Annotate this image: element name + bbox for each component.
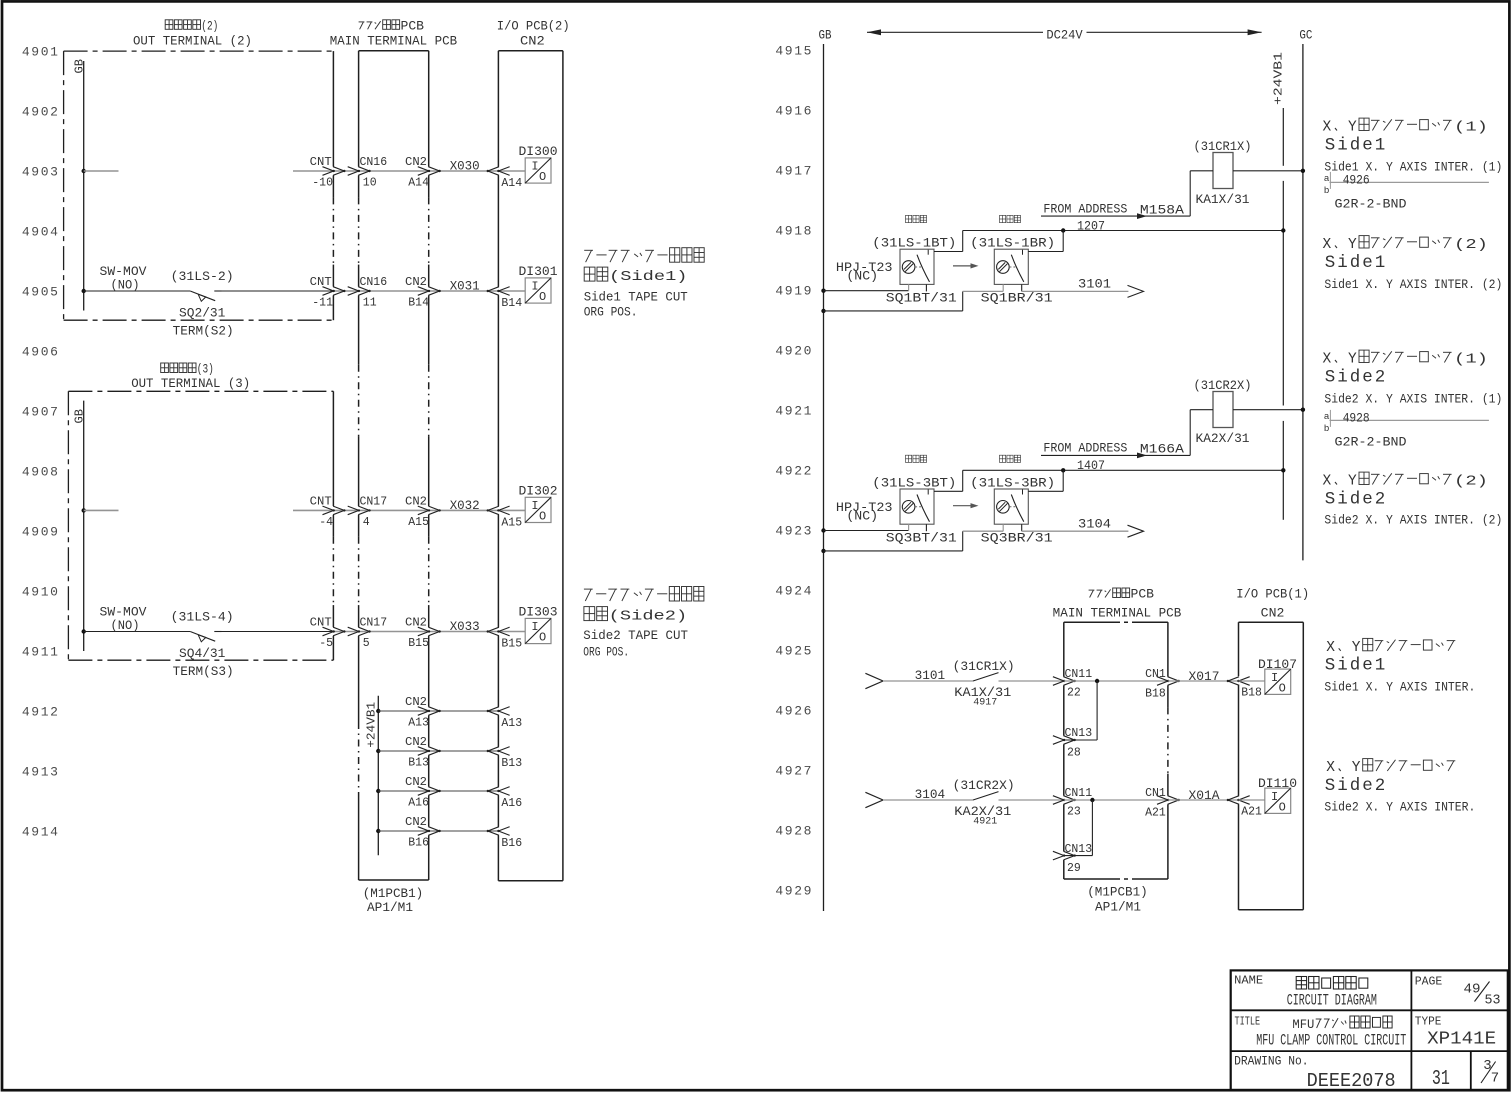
- svg-text:B13: B13: [408, 757, 429, 770]
- wire emitter top to net: [934, 490, 963, 492]
- wire to I/O module: [498, 290, 525, 292]
- wire +24V row B16: [376, 816, 522, 850]
- svg-text:GC: GC: [1299, 29, 1312, 43]
- header OUT TERMINAL (2): [133, 19, 252, 48]
- svg-text:a: a: [1324, 411, 1330, 422]
- svg-text:Y: Y: [1348, 474, 1357, 490]
- svg-text:B14: B14: [501, 297, 522, 310]
- svg-text:O: O: [539, 170, 546, 184]
- connector chevrons CNT: [323, 627, 334, 636]
- limit switch SQ2/31 row 4905 X031: [82, 265, 558, 339]
- svg-text:(31LS-2): (31LS-2): [171, 270, 234, 284]
- arrow output: [1128, 525, 1144, 537]
- svg-text:Y: Y: [1348, 352, 1357, 368]
- svg-text:(1): (1): [1454, 120, 1488, 136]
- photo sensor pair SQ3BT/SQ3BR row 4923: [821, 455, 1143, 553]
- svg-text:A16: A16: [408, 797, 429, 810]
- junction on GB: [821, 309, 825, 313]
- svg-text:10: 10: [363, 177, 377, 190]
- wire net 3101: [883, 680, 973, 682]
- svg-text:I: I: [1271, 790, 1278, 804]
- svg-text:SW-MOV: SW-MOV: [100, 265, 148, 279]
- svg-text:a: a: [1324, 173, 1330, 184]
- svg-text:Side2: Side2: [1325, 368, 1388, 388]
- label receiver kanji: [1000, 215, 1006, 222]
- relay contact KA2X/31 row 4927 X01A: [865, 777, 1297, 875]
- junction: [1090, 798, 1094, 802]
- svg-text:NAME: NAME: [1234, 974, 1263, 988]
- svg-text:Side1 X. Y AXIS INTER. (2): Side1 X. Y AXIS INTER. (2): [1324, 278, 1502, 292]
- header I/O PCB(2) CN2: [497, 19, 570, 48]
- svg-text:-5: -5: [319, 637, 333, 650]
- svg-text:23: 23: [1067, 806, 1081, 819]
- relay coil KA1X/31 (31CR1X): [1190, 140, 1305, 216]
- svg-text:CN2: CN2: [520, 34, 545, 48]
- svg-text:I/O PCB(1): I/O PCB(1): [1236, 588, 1309, 602]
- header MAIN TERMINAL PCB bottom: [1053, 588, 1182, 621]
- svg-text:O: O: [539, 290, 546, 304]
- svg-text:CN2: CN2: [1261, 607, 1285, 621]
- svg-text:Side2: Side2: [1325, 490, 1388, 510]
- title block NAME cell: [1234, 974, 1377, 1010]
- svg-text:CN2: CN2: [405, 816, 427, 829]
- svg-text:MFU CLAMP CONTROL CIRCUIT: MFU CLAMP CONTROL CIRCUIT: [1256, 1031, 1406, 1049]
- note interlock (1) Side1: [1323, 118, 1503, 211]
- svg-text:CN2: CN2: [405, 696, 427, 709]
- node GB (box3): [73, 401, 87, 651]
- svg-text:CN17: CN17: [360, 496, 388, 509]
- photo sensor receiver SQ1BR/31: [994, 249, 1028, 284]
- svg-text:MAIN TERMINAL PCB: MAIN TERMINAL PCB: [1053, 607, 1182, 621]
- svg-text:-10: -10: [312, 177, 333, 190]
- connector chevrons CN2: [418, 506, 429, 515]
- wire: [1064, 799, 1168, 801]
- svg-text:CNT: CNT: [310, 276, 332, 289]
- svg-text:ORG POS.: ORG POS.: [584, 306, 638, 320]
- wire lower branch: [824, 550, 963, 552]
- svg-text:CN16: CN16: [360, 156, 388, 169]
- svg-text:CN17: CN17: [360, 617, 388, 630]
- svg-text:X: X: [1323, 352, 1332, 368]
- svg-text:I/O PCB(2): I/O PCB(2): [497, 19, 570, 33]
- title block TITLE cell: [1235, 1014, 1407, 1049]
- wire row X032: [82, 484, 558, 529]
- note tape cutter Side1: [584, 248, 705, 320]
- svg-text:I: I: [531, 160, 538, 174]
- svg-text:DC24V: DC24V: [1046, 29, 1083, 43]
- connector chevrons CN16: [348, 167, 359, 176]
- svg-text:4922: 4922: [775, 464, 813, 479]
- svg-text:4903: 4903: [22, 165, 60, 180]
- svg-text:Side1: Side1: [1325, 136, 1388, 156]
- node GB right: [819, 29, 832, 912]
- svg-text:AP1/M1: AP1/M1: [1095, 901, 1141, 915]
- junction on GB: [821, 549, 825, 553]
- svg-text:(31LS-3BT): (31LS-3BT): [872, 476, 956, 490]
- junction on GB: [82, 169, 86, 173]
- junction on GB: [821, 289, 825, 293]
- left row number labels 4901-4914: [22, 45, 60, 840]
- note interlock (1) Side2: [1323, 350, 1503, 449]
- pin: [925, 524, 927, 531]
- connector chevrons CN17: [348, 627, 359, 636]
- junction on GB: [821, 528, 825, 532]
- svg-text:(31CR1X): (31CR1X): [953, 660, 1015, 674]
- wire to I/O module: [498, 631, 525, 633]
- label (M1PCB1) AP1/M1 left: [363, 887, 424, 915]
- svg-text:B14: B14: [408, 297, 429, 310]
- svg-text:CN13: CN13: [1065, 727, 1093, 740]
- arrow output: [1128, 285, 1144, 297]
- svg-text:7: 7: [1491, 1070, 1499, 1086]
- svg-text:3104: 3104: [915, 788, 946, 802]
- svg-text:4911: 4911: [22, 645, 60, 660]
- relay coil KA2X/31 (31CR2X): [1190, 379, 1305, 455]
- svg-text:(31LS-1BR): (31LS-1BR): [970, 237, 1055, 251]
- label emitter kanji: [906, 215, 912, 222]
- svg-text:4916: 4916: [775, 104, 813, 119]
- wire to I/O module: [498, 509, 525, 511]
- svg-text:CIRCUIT DIAGRAM: CIRCUIT DIAGRAM: [1287, 991, 1377, 1009]
- svg-text:4926: 4926: [1343, 174, 1370, 188]
- svg-text:SQ1BR/31: SQ1BR/31: [981, 292, 1053, 306]
- svg-text:I: I: [531, 499, 538, 513]
- svg-text:DI300: DI300: [519, 145, 558, 159]
- svg-text:A16: A16: [501, 797, 522, 810]
- svg-text:G2R-2-BND: G2R-2-BND: [1335, 198, 1407, 212]
- svg-text:SQ3BT/31: SQ3BT/31: [886, 531, 957, 545]
- svg-text:X031: X031: [450, 280, 480, 294]
- svg-text:b: b: [1324, 423, 1330, 434]
- svg-text:(Side1): (Side1): [609, 269, 688, 285]
- svg-text:28: 28: [1067, 747, 1081, 760]
- box OUT TERMINAL (3): [68, 391, 333, 660]
- svg-text:-4: -4: [319, 516, 333, 529]
- wire +24V row A16: [376, 776, 522, 810]
- note tape cutter Side2: [583, 587, 704, 660]
- svg-text:MAIN TERMINAL PCB: MAIN TERMINAL PCB: [330, 34, 458, 48]
- svg-text:GB: GB: [819, 29, 832, 43]
- svg-text:31: 31: [1432, 1068, 1450, 1091]
- svg-text:X033: X033: [450, 620, 480, 634]
- connector chevrons I/O pin: [488, 627, 499, 636]
- svg-text:4918: 4918: [775, 224, 813, 239]
- svg-text:A14: A14: [408, 177, 429, 190]
- wire: [1168, 799, 1239, 801]
- node +24VB1 right rail: [1272, 52, 1286, 520]
- svg-text:A15: A15: [408, 516, 429, 529]
- svg-text:4929: 4929: [775, 884, 813, 899]
- wire receiver top to net: [1028, 251, 1063, 253]
- svg-text:TITLE: TITLE: [1235, 1014, 1261, 1028]
- wire to I/O module: [1239, 799, 1265, 801]
- wire: [214, 290, 221, 292]
- svg-text:Side1 X. Y AXIS INTER.: Side1 X. Y AXIS INTER.: [1324, 681, 1475, 695]
- svg-text:CN11: CN11: [1065, 668, 1093, 681]
- wire receiver top to net: [1028, 490, 1063, 492]
- header OUT TERMINAL (3): [131, 363, 250, 391]
- svg-text:A21: A21: [1145, 806, 1166, 819]
- photo sensor emitter SQ1BT/31: [900, 249, 934, 284]
- svg-text:Side2: Side2: [1325, 776, 1388, 796]
- svg-text:3104: 3104: [1078, 517, 1111, 531]
- note interlock (2) Side2: [1323, 472, 1503, 527]
- svg-text:Side1 TAPE CUT: Side1 TAPE CUT: [584, 291, 688, 305]
- pin: [908, 524, 910, 530]
- wire net 3104: [883, 799, 973, 801]
- wire: [333, 170, 498, 172]
- svg-text:TERM(S3): TERM(S3): [173, 665, 234, 679]
- svg-text:11: 11: [363, 297, 377, 310]
- label DC24V arrow: [867, 29, 1262, 43]
- svg-text:GB: GB: [73, 409, 87, 423]
- svg-text:I: I: [531, 280, 538, 294]
- box MAIN TERMINAL PCB left: [359, 51, 429, 880]
- wire +24V row A13: [376, 696, 522, 730]
- relay contact KA1X/31 row 4925 X017: [865, 658, 1297, 760]
- wire: [84, 631, 191, 633]
- svg-text:(NO): (NO): [111, 619, 140, 633]
- svg-text:4917: 4917: [775, 164, 813, 179]
- svg-text:SQ4/31: SQ4/31: [179, 647, 225, 661]
- svg-text:CN11: CN11: [1065, 787, 1093, 800]
- note interlock Side2 (bottom): [1324, 759, 1475, 815]
- svg-text:4904: 4904: [22, 225, 60, 240]
- pin: [925, 284, 927, 291]
- wire lower branch: [824, 310, 963, 312]
- svg-text:O: O: [1279, 681, 1286, 695]
- svg-text:A14: A14: [501, 177, 522, 190]
- connector chevrons CN1 pin A21: [1157, 796, 1168, 805]
- svg-text:SW-MOV: SW-MOV: [100, 605, 148, 619]
- svg-text:X: X: [1323, 120, 1332, 136]
- svg-text:4925: 4925: [775, 644, 813, 659]
- svg-text:B16: B16: [501, 837, 522, 850]
- svg-text:(1): (1): [1454, 352, 1488, 368]
- svg-text:(31LS-4): (31LS-4): [171, 611, 234, 625]
- node +24VB1 left rail: [365, 696, 379, 856]
- wire: [333, 631, 498, 633]
- svg-text:X: X: [1326, 760, 1335, 776]
- svg-text:4926: 4926: [775, 704, 813, 719]
- svg-text:Y: Y: [1348, 120, 1357, 136]
- svg-text:4907: 4907: [22, 405, 60, 420]
- connector chevrons I/O pin: [488, 167, 499, 176]
- wire GB to emitter: [824, 530, 909, 532]
- svg-text:5: 5: [363, 637, 370, 650]
- title block TYPE cell: [1415, 1014, 1496, 1049]
- svg-text:(NO): (NO): [111, 279, 140, 293]
- wire FROM ADDRESS M166A: [1041, 442, 1190, 459]
- wire output: [1022, 530, 1129, 532]
- svg-text:O: O: [1279, 800, 1286, 814]
- connector chevrons CNT: [323, 287, 334, 296]
- node GC right: [1299, 29, 1312, 561]
- connector chevrons CN13 pin 28: [1053, 736, 1064, 745]
- svg-text:KA2X/31: KA2X/31: [1196, 432, 1250, 446]
- svg-text:4928: 4928: [1343, 412, 1370, 426]
- svg-text:4914: 4914: [22, 825, 60, 840]
- svg-text:4902: 4902: [22, 105, 60, 120]
- svg-text:(31CR2X): (31CR2X): [953, 779, 1015, 793]
- pin: [908, 284, 910, 290]
- svg-text:X01A: X01A: [1189, 789, 1221, 803]
- svg-text:Side1 X. Y AXIS INTER. (1): Side1 X. Y AXIS INTER. (1): [1324, 161, 1502, 175]
- svg-text:(2): (2): [1454, 474, 1488, 490]
- wire to CN13: [1096, 681, 1098, 740]
- svg-text:CNT: CNT: [310, 156, 332, 169]
- svg-text:CN2: CN2: [405, 496, 427, 509]
- title block: [1231, 970, 1508, 1090]
- junction on GB: [82, 629, 86, 633]
- connector chevrons CN11 pin 23: [1053, 796, 1064, 805]
- relay contact KA1X/31: [973, 673, 999, 681]
- wire to CN13: [1091, 800, 1093, 856]
- connector chevrons CN17: [348, 506, 359, 515]
- wire net 1407: [963, 459, 1286, 473]
- svg-text:(3): (3): [197, 363, 214, 377]
- wire to I/O module: [1239, 680, 1265, 682]
- note interlock Side1 (bottom): [1324, 638, 1475, 694]
- pin: [1002, 524, 1004, 531]
- svg-text:B15: B15: [408, 637, 429, 650]
- connector chevrons I/O pin: [488, 506, 499, 515]
- connector chevrons CN1 pin B18: [1157, 677, 1168, 686]
- svg-text:X017: X017: [1189, 670, 1220, 684]
- arrow wire entry: [865, 673, 883, 688]
- svg-text:KA1X/31: KA1X/31: [1196, 193, 1250, 207]
- svg-text:M166A: M166A: [1140, 443, 1185, 457]
- svg-text:CN2: CN2: [405, 276, 427, 289]
- svg-text:Y: Y: [1352, 640, 1361, 656]
- svg-text:Side2 X. Y AXIS INTER. (1): Side2 X. Y AXIS INTER. (1): [1324, 393, 1502, 407]
- svg-text:(31LS-1BT): (31LS-1BT): [872, 237, 956, 251]
- svg-text:(NC): (NC): [846, 509, 878, 523]
- connector chevrons CN11 pin 22: [1053, 677, 1064, 686]
- relay contact KA2X/31: [973, 792, 999, 800]
- svg-text:Y: Y: [1348, 237, 1357, 253]
- svg-text:PCB: PCB: [1131, 588, 1155, 602]
- svg-text:4909: 4909: [22, 525, 60, 540]
- limit switch SQ4/31 lever: [190, 632, 215, 642]
- svg-text:4923: 4923: [775, 524, 813, 539]
- pin: [1021, 524, 1023, 531]
- svg-text:4927: 4927: [775, 764, 813, 779]
- wire to I/O module: [498, 170, 525, 172]
- header MAIN TERMINAL PCB: [330, 19, 458, 48]
- connector chevrons I/O pin B18: [1228, 677, 1239, 686]
- svg-text:OUT TERMINAL (2): OUT TERMINAL (2): [133, 34, 252, 48]
- svg-text:CN2: CN2: [405, 736, 427, 749]
- wire +24V row B13: [376, 736, 522, 770]
- connector chevrons I/O pin A21: [1228, 796, 1239, 805]
- limit switch SQ4/31 row X033: [82, 605, 558, 679]
- svg-text:3101: 3101: [1078, 278, 1111, 292]
- svg-text:4915: 4915: [775, 44, 813, 59]
- svg-text:CN13: CN13: [1065, 843, 1093, 856]
- svg-text:DI303: DI303: [519, 605, 558, 619]
- svg-text:DEEE2078: DEEE2078: [1307, 1070, 1396, 1092]
- svg-text:I: I: [1271, 671, 1278, 685]
- svg-text:A21: A21: [1241, 806, 1262, 819]
- connector chevrons CN2: [418, 287, 429, 296]
- label receiver kanji: [1000, 455, 1006, 462]
- svg-text:X: X: [1326, 640, 1335, 656]
- svg-text:(Side2): (Side2): [609, 609, 688, 625]
- svg-text:Side2 X. Y AXIS INTER. (2): Side2 X. Y AXIS INTER. (2): [1324, 514, 1502, 528]
- svg-text:53: 53: [1485, 994, 1501, 1009]
- title block DRAWING cell: [1234, 1054, 1499, 1092]
- svg-text:X: X: [1323, 237, 1332, 253]
- connector chevrons CN2: [418, 627, 429, 636]
- connector chevrons CN13 pin 29: [1053, 851, 1064, 860]
- svg-text:4919: 4919: [775, 284, 813, 299]
- svg-text:X032: X032: [450, 499, 480, 513]
- svg-text:4921: 4921: [775, 404, 813, 419]
- wire: [214, 631, 221, 633]
- wire: [333, 509, 498, 511]
- svg-text:CN2: CN2: [405, 617, 427, 630]
- svg-text:1207: 1207: [1077, 220, 1105, 234]
- svg-text:(2): (2): [1454, 237, 1488, 253]
- connector chevrons CNT: [323, 167, 334, 176]
- box I/O PCB(2): [498, 51, 563, 881]
- svg-text:4: 4: [363, 516, 370, 529]
- wire: [1064, 680, 1168, 682]
- connector chevrons CN16: [348, 287, 359, 296]
- svg-text:4921: 4921: [973, 817, 997, 828]
- svg-text:CN2: CN2: [405, 776, 427, 789]
- wire: [999, 799, 1064, 801]
- connector chevrons CNT: [323, 506, 334, 515]
- svg-text:(NC): (NC): [846, 270, 878, 284]
- svg-text:(M1PCB1): (M1PCB1): [363, 887, 424, 901]
- svg-text:3101: 3101: [915, 669, 946, 683]
- svg-text:4924: 4924: [775, 584, 813, 599]
- label emitter kanji: [906, 455, 912, 462]
- svg-text:CN2: CN2: [405, 156, 427, 169]
- svg-text:B18: B18: [1241, 687, 1262, 700]
- wire stub from GB: [84, 509, 119, 511]
- svg-text:4910: 4910: [22, 585, 60, 600]
- svg-text:4920: 4920: [775, 344, 813, 359]
- svg-text:29: 29: [1067, 862, 1081, 875]
- light beam arrow: [953, 505, 974, 507]
- wire stub from GB: [84, 170, 119, 172]
- svg-text:G2R-2-BND: G2R-2-BND: [1335, 435, 1407, 449]
- svg-text:MFU: MFU: [1292, 1018, 1314, 1032]
- svg-text:SQ3BR/31: SQ3BR/31: [981, 531, 1053, 545]
- svg-text:B18: B18: [1145, 687, 1166, 700]
- wire: [293, 170, 333, 172]
- svg-text:FROM ADDRESS: FROM ADDRESS: [1043, 442, 1127, 456]
- title block PAGE cell: [1415, 974, 1501, 1008]
- svg-text:DRAWING No.: DRAWING No.: [1234, 1054, 1308, 1069]
- svg-text:4906: 4906: [22, 345, 60, 360]
- svg-text:(2): (2): [201, 19, 218, 33]
- svg-text:TERM(S2): TERM(S2): [173, 325, 234, 339]
- light beam arrow: [953, 265, 974, 267]
- svg-text:A13: A13: [501, 717, 522, 730]
- svg-text:(M1PCB1): (M1PCB1): [1087, 886, 1148, 900]
- wire FROM ADDRESS M158A: [1041, 203, 1190, 220]
- svg-text:PAGE: PAGE: [1415, 974, 1443, 988]
- svg-text:OUT TERMINAL (3): OUT TERMINAL (3): [131, 377, 250, 391]
- svg-text:(31LS-3BR): (31LS-3BR): [970, 476, 1055, 490]
- svg-text:X030: X030: [450, 160, 480, 174]
- svg-text:CNT: CNT: [310, 496, 332, 509]
- box MAIN TERMINAL PCB bottom: [1064, 622, 1168, 879]
